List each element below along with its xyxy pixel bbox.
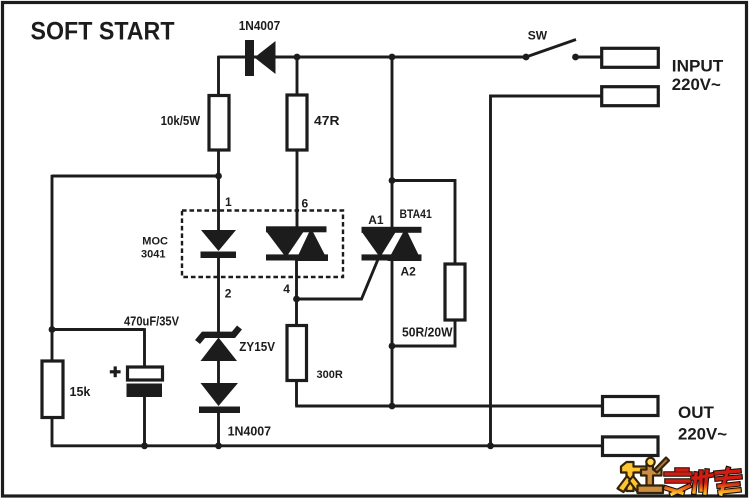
capacitor C1 470uF/35V (127, 367, 163, 397)
wire: capacitor top lead (143, 328, 146, 367)
wire: 47R top lead (296, 56, 299, 95)
wire: 15k bottom (51, 418, 54, 446)
wire: R 10k bottom to node (217, 150, 220, 177)
node switch contact (572, 54, 579, 61)
node R10k bottom (215, 173, 222, 180)
svg-text:220V~: 220V~ (678, 425, 727, 444)
wire: triac gate (297, 255, 381, 300)
svg-text:50R/20W: 50R/20W (402, 325, 453, 339)
node bottom cap (141, 442, 148, 449)
wire: 50R bottom link (392, 320, 455, 346)
node gate pin4 (293, 296, 300, 303)
wire: OUT line y=406 (295, 405, 602, 408)
node OUT line triac (389, 403, 396, 410)
wire: link to 50R top (392, 181, 455, 265)
terminal OUT box 1 (603, 397, 659, 416)
capacitor plus sign (110, 366, 121, 377)
node bottom diode (215, 442, 222, 449)
svg-text:MOC: MOC (142, 235, 168, 247)
terminal INPUT box 1 (602, 48, 659, 67)
diode D2 1N4007 bottom (199, 383, 240, 413)
svg-text:2: 2 (225, 287, 232, 301)
wire: diode bottom lead (217, 413, 220, 446)
wire: left rail down (51, 175, 54, 361)
wire: capacitor bottom lead (143, 397, 146, 446)
svg-text:A2: A2 (401, 265, 417, 279)
svg-text:OUT: OUT (678, 403, 715, 422)
watermark logo (618, 458, 741, 495)
opto triac (266, 226, 328, 261)
wire: zener to diode (217, 360, 220, 384)
svg-text:A1: A1 (368, 213, 384, 227)
svg-text:1: 1 (225, 195, 232, 209)
svg-text:INPUT: INPUT (672, 57, 724, 76)
svg-text:BTA41: BTA41 (400, 207, 433, 221)
node triac top link (389, 177, 396, 184)
svg-text:4: 4 (283, 282, 290, 296)
node top-triac (389, 54, 396, 61)
diode D1 1N4007 top (245, 40, 276, 76)
resistor R 50R/20W (445, 264, 465, 320)
logo glyph DU earth radical (641, 464, 662, 486)
node bottom input (487, 442, 494, 449)
wire: opto pin4 lead down to 300R (295, 260, 298, 326)
optocoupler dashed box MOC3041 (182, 211, 343, 278)
switch SW lever (526, 40, 576, 58)
resistor R 300R (287, 326, 307, 381)
wire: triac branch lower (391, 260, 394, 407)
zener ZD1 ZY15V (198, 328, 240, 362)
svg-text:10k/5W: 10k/5W (161, 114, 201, 128)
node switch pivot (523, 54, 530, 61)
svg-text:47R: 47R (314, 114, 340, 128)
node cap tap (49, 326, 56, 333)
wire: top-left drop to R 10k (217, 56, 220, 96)
svg-text:SOFT START: SOFT START (31, 18, 176, 46)
wire: switch to INPUT box (576, 56, 602, 59)
triac Q1 BTA41 (362, 227, 422, 261)
svg-text:300R: 300R (317, 369, 343, 381)
resistor R 10k/5W (209, 96, 229, 151)
svg-text:ZY15V: ZY15V (239, 340, 275, 354)
wire: 47R bottom to opto pin6 (296, 150, 299, 228)
svg-text:6: 6 (302, 197, 309, 211)
wire: INPUT2 down to bottom rail (491, 96, 602, 446)
wire: triac branch upper (391, 56, 394, 228)
node triac bottom link (389, 343, 396, 350)
svg-text:1N4007: 1N4007 (239, 18, 281, 33)
wire: 300R bottom lead (295, 381, 298, 407)
resistor R 15k (42, 361, 63, 418)
wire: horizontal y=176 (52, 175, 219, 178)
svg-text:3041: 3041 (141, 248, 165, 260)
svg-text:SW: SW (528, 29, 548, 43)
svg-text:15k: 15k (70, 385, 91, 399)
resistor R 47R (287, 95, 307, 150)
logo glyph DU wood radical (618, 458, 670, 494)
terminal INPUT box 2 (602, 87, 659, 106)
wire: opto pin2 lead down to zener (217, 257, 220, 335)
wire: top rail y=57 (219, 56, 527, 59)
wire: bottom rail y=445.8 (51, 444, 603, 447)
opto LED (201, 230, 237, 258)
terminal OUT box 2 (603, 437, 659, 456)
wire: capacitor tap horizontal y=329.5 (52, 328, 145, 331)
wire: opto pin1 lead (217, 176, 220, 231)
svg-text:1N4007: 1N4007 (228, 423, 272, 438)
svg-text:220V~: 220V~ (672, 75, 721, 94)
node top-47R (294, 54, 301, 61)
svg-text:470uF/35V: 470uF/35V (124, 315, 180, 329)
